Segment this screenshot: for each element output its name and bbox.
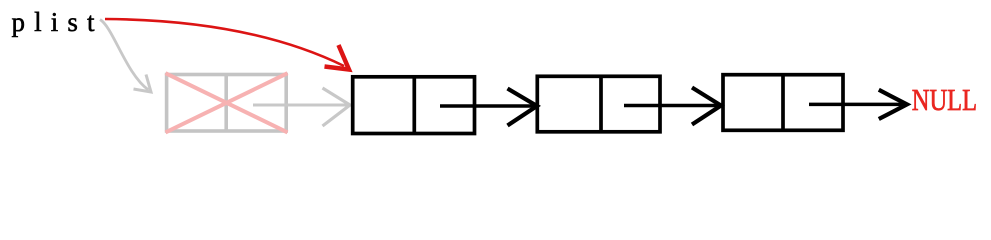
node: deleted old head cell (crossed out) <box>166 73 288 132</box>
cross-out X <box>166 73 288 132</box>
wire: arrow node1 -> node2 <box>440 89 537 126</box>
wire: red curved arrow from plist to new head <box>105 19 349 70</box>
wire: arrow node2 -> node3 <box>624 88 721 125</box>
wire: gray arrow from deleted cell to node 1 <box>253 88 350 126</box>
svg-text:NULL: NULL <box>912 83 977 117</box>
node 1 box <box>353 77 475 134</box>
node 2 box <box>537 76 660 132</box>
wire: arrow node3 -> NULL <box>809 90 907 119</box>
wire: gray curved arrow from plist to old head <box>100 20 151 93</box>
node 3 box <box>723 75 843 131</box>
node label NULL <box>912 83 977 117</box>
svg-text:plist: plist <box>12 7 95 37</box>
